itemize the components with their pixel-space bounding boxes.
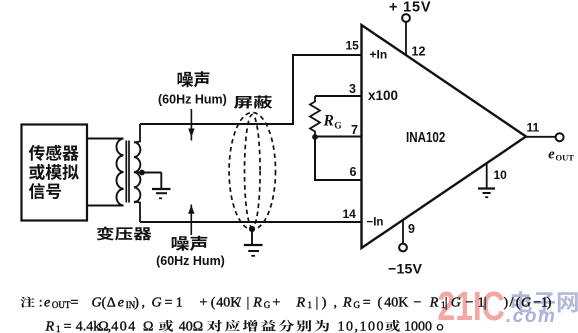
svg-text:1000: 1000 (404, 320, 432, 333)
wire pin 9 (triangle bottom to -15V) (402, 220, 404, 244)
wire secondary top lead (134, 124, 140, 143)
node: RG bottom junction (312, 134, 318, 140)
label 噪声 (noise, bottom) (172, 236, 208, 251)
wire junction to pin 6 (315, 137, 362, 180)
wire center tap to ground (136, 172, 162, 174)
svg-text:R: R (296, 295, 306, 310)
label 噪声 (noise, top) (178, 71, 210, 87)
svg-text:=: = (64, 320, 72, 333)
svg-text:+: + (273, 295, 281, 310)
svg-text:OUT: OUT (52, 300, 71, 310)
noise arrow bottom (into bottom bus) (188, 205, 194, 236)
note line 1 (20, 295, 551, 310)
svg-text:(: ( (102, 295, 107, 310)
svg-text:1: 1 (56, 324, 61, 333)
svg-text:): ) (547, 295, 552, 310)
svg-text:|: | (316, 295, 319, 310)
svg-text:,: , (142, 295, 146, 310)
svg-text:x100: x100 (368, 88, 398, 103)
shield inner dashed ellipse (245, 115, 261, 228)
transformer T1 secondary winding (134, 142, 140, 202)
svg-text:40K: 40K (384, 295, 408, 310)
svg-text:40Ω: 40Ω (179, 320, 203, 333)
svg-text:−In: −In (367, 217, 384, 229)
svg-text:R: R (429, 295, 439, 310)
svg-text:(: ( (378, 295, 383, 310)
svg-text:−: − (466, 295, 474, 310)
svg-text:OUT: OUT (556, 153, 575, 163)
svg-text:+In: +In (370, 48, 388, 62)
svg-text:9: 9 (408, 222, 415, 236)
label 传感器/或模拟/信号 inside box (29, 145, 79, 199)
label INA102 (406, 129, 445, 146)
svg-text:(60Hz Hum): (60Hz Hum) (158, 93, 227, 107)
+15V supply terminal (402, 14, 410, 22)
resistor RG (310, 96, 320, 136)
svg-text:,: , (334, 295, 338, 310)
svg-text:10: 10 (494, 168, 508, 182)
svg-text:): ) (322, 295, 327, 310)
svg-text:R: R (342, 295, 352, 310)
transformer T1 primary winding (116, 139, 123, 206)
transformer T1 core (126, 141, 129, 203)
label 变压器 (transformer) (97, 227, 152, 241)
svg-text:10,100: 10,100 (338, 320, 386, 333)
svg-text:|: | (445, 295, 448, 310)
wire pin 10 to ground (486, 164, 488, 189)
svg-text:14: 14 (343, 207, 357, 221)
svg-text:+: + (200, 295, 208, 310)
ground (pin 10) (478, 189, 495, 198)
wire shield to ground (251, 230, 253, 244)
svg-text:15: 15 (346, 39, 360, 53)
svg-text:(60Hz Hum): (60Hz Hum) (156, 254, 225, 268)
svg-text:e: e (118, 295, 124, 310)
svg-text:G: G (521, 295, 531, 310)
note line 2 (45, 320, 443, 333)
shield outer dashed ellipse (229, 113, 275, 230)
svg-text::: : (39, 295, 43, 310)
svg-text:e: e (548, 147, 555, 163)
wire output pin 11 (526, 136, 556, 138)
svg-text:R: R (323, 113, 334, 130)
label 屏蔽 (shield) (234, 95, 272, 108)
ground (shield) (244, 245, 263, 256)
svg-text:7: 7 (351, 123, 358, 137)
node: shield-to-ground junction (249, 226, 255, 232)
ground (transformer center tap) (152, 173, 171, 199)
wire box to transformer primary (top) (87, 138, 124, 140)
svg-text:): ) (134, 295, 139, 310)
wire bottom bus (secondary bottom to -In pin 14) (140, 221, 362, 223)
svg-text:R: R (252, 295, 262, 310)
svg-text:G: G (451, 295, 461, 310)
svg-text:1: 1 (176, 295, 183, 310)
wire top bus (secondary top to +In pin 15) (140, 55, 362, 124)
svg-text:G: G (92, 295, 102, 310)
svg-text:=: = (71, 295, 79, 310)
output terminal (556, 133, 564, 141)
node: transformer center tap junction (139, 170, 145, 176)
watermark 21IC.com 电子网 (438, 283, 578, 329)
svg-text:(: ( (211, 295, 216, 310)
svg-text:=: = (363, 295, 371, 310)
svg-text:G: G (354, 300, 361, 310)
svg-text:/: / (510, 295, 514, 310)
svg-text:G: G (264, 300, 271, 310)
svg-text:Δ: Δ (107, 295, 116, 310)
svg-text:4.4k: 4.4k (76, 320, 101, 333)
svg-text:G: G (152, 295, 162, 310)
svg-text:3: 3 (349, 82, 356, 96)
svg-text:1: 1 (308, 300, 313, 310)
svg-text:e: e (44, 295, 50, 310)
svg-text:): ) (504, 295, 509, 310)
svg-text:404: 404 (111, 320, 137, 333)
noise arrow top (into top bus) (188, 109, 194, 141)
sensor box (传感器或模拟信号) (22, 125, 88, 221)
svg-text:+ 15V: + 15V (389, 0, 431, 16)
wire pin 3 (RG top to triangle) (315, 95, 362, 97)
svg-text:/: / (237, 295, 241, 310)
wire pin 7 (RG junction to triangle) (315, 136, 362, 138)
svg-text:−: − (414, 295, 422, 310)
svg-text:−15V: −15V (388, 261, 423, 277)
svg-text:12: 12 (412, 45, 426, 59)
wire secondary bottom lead (134, 202, 140, 223)
svg-text:11: 11 (527, 121, 540, 135)
svg-text:R: R (45, 320, 55, 333)
svg-text:G: G (334, 122, 342, 132)
op-amp U1 INA102 triangle (362, 25, 527, 248)
svg-text:INA102: INA102 (406, 129, 445, 146)
svg-text:6: 6 (350, 165, 357, 179)
svg-text:=: = (165, 295, 173, 310)
svg-text:|: | (484, 295, 487, 310)
wire pin 12 (+15V to triangle top) (405, 22, 407, 55)
-15V supply terminal (399, 244, 407, 252)
wire box to transformer primary (bottom) (87, 205, 124, 207)
svg-text:Ω: Ω (143, 320, 153, 333)
svg-text:|: | (247, 295, 250, 310)
